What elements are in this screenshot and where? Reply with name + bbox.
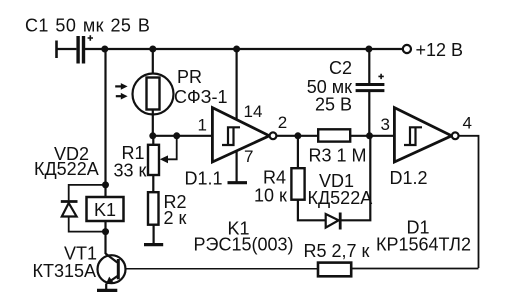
wire: node 3 to D1.2 input [370, 135, 396, 137]
svg-text:7: 7 [244, 147, 253, 166]
node junction R1 top [149, 132, 156, 139]
node junction at relay branch [101, 46, 108, 53]
svg-text:4: 4 [463, 114, 472, 133]
svg-text:1: 1 [198, 116, 207, 135]
node junction at C2 branch [365, 46, 372, 53]
resistor R5 [318, 263, 351, 277]
wire: D1.1 output to node 2 [276, 135, 298, 137]
wire: input lead to C1 [57, 48, 77, 50]
capacitor C2 [356, 85, 385, 91]
ground R2 [144, 243, 163, 246]
wire: +12V top rail [85, 48, 403, 50]
resistor R3 [318, 129, 350, 141]
node junction wiper [173, 132, 180, 139]
C2 polarity plus [378, 74, 383, 79]
wire: corner to R5 [351, 268, 479, 270]
inverter D1.1 [212, 108, 276, 162]
svg-text:C2: C2 [329, 58, 352, 78]
resistor R2 [148, 192, 159, 225]
svg-text:R5 2,7 к: R5 2,7 к [304, 241, 370, 261]
svg-text:КД522А: КД522А [34, 159, 99, 179]
C1 polarity plus [88, 35, 93, 40]
svg-text:C1 50 мк 25 В: C1 50 мк 25 В [25, 16, 150, 36]
svg-text:КД522А: КД522А [308, 188, 373, 208]
svg-text:2: 2 [278, 113, 287, 132]
wire: VD2 bottom lead [69, 217, 106, 232]
wire: rail to PR [152, 49, 154, 78]
wire: node row to D1.1 input [153, 135, 213, 137]
svg-text:СФЗ-1: СФЗ-1 [174, 87, 228, 107]
wire: C2 to node 3 [368, 92, 370, 136]
svg-text:R4: R4 [263, 168, 286, 188]
svg-text:PR: PR [177, 67, 202, 87]
wire: pin 4 to corner [459, 136, 479, 268]
ground VT1 [97, 289, 117, 292]
wire: relay to VT1 collector [104, 221, 106, 254]
wire: R1 top stub [152, 136, 154, 145]
wire: VD2 top lead [69, 185, 106, 201]
svg-text:2 к: 2 к [164, 208, 187, 228]
wire: emitter to ground [105, 284, 107, 291]
capacitor C1 [78, 36, 83, 64]
photoresistor PR [115, 74, 173, 115]
terminal +12V [403, 45, 411, 53]
wire: R4 to VD1 anode [298, 200, 326, 221]
wire: R2 to ground [153, 225, 155, 244]
svg-text:R3 1 М: R3 1 М [309, 146, 367, 166]
svg-text:D1.1: D1.1 [185, 169, 223, 189]
svg-text:25 В: 25 В [315, 95, 352, 115]
wire: R1 to R2 [152, 175, 154, 192]
inverter D1.2 [394, 108, 458, 162]
wire: rail to C2 [368, 49, 370, 83]
resistor R1 (variable) [148, 136, 177, 175]
wire: VD1 cathode to node 3 [341, 136, 370, 221]
wire: pin 14 to rail [236, 49, 238, 120]
svg-text:3: 3 [381, 115, 390, 134]
svg-text:14: 14 [244, 102, 263, 121]
svg-text:D1.2: D1.2 [390, 168, 428, 188]
svg-text:+12 В: +12 В [416, 40, 464, 60]
node junction 3 [366, 132, 373, 139]
node junction at pin14 branch [233, 46, 240, 53]
resistor R4 [291, 168, 304, 200]
svg-text:РЭС15(003): РЭС15(003) [194, 235, 294, 255]
wire: pin 7 to ground [236, 151, 238, 182]
svg-text:КР1564ТЛ2: КР1564ТЛ2 [376, 235, 471, 255]
wire: rail to relay [104, 49, 106, 197]
node junction at PR branch [149, 46, 156, 53]
node junction 2 [294, 132, 301, 139]
svg-text:K1: K1 [94, 200, 116, 220]
diode VD2 [61, 202, 78, 217]
svg-text:КТ315А: КТ315А [33, 261, 97, 281]
svg-text:10 к: 10 к [254, 186, 287, 206]
node junction relay bottom [102, 228, 109, 235]
input terminal bar [55, 41, 58, 59]
relay coil K1 [87, 197, 124, 221]
ground pin 7 [228, 181, 248, 184]
wire: PR to node row [152, 110, 154, 136]
svg-text:33 к: 33 к [114, 161, 147, 181]
diode VD1 [326, 213, 341, 230]
wire: R3 to node 3 [350, 135, 369, 137]
wire: node 2 to R3 [298, 135, 319, 137]
transistor VT1 [98, 254, 126, 285]
wire: R5 to VT1 base [119, 268, 318, 270]
wire: node 2 down to R4 [297, 136, 299, 169]
node junction relay top [102, 181, 109, 188]
